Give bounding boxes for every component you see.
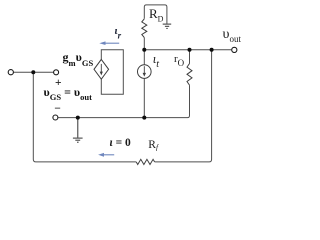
arrowhead inside diamond xyxy=(100,72,103,76)
label minus xyxy=(54,103,61,115)
wire rO top lead xyxy=(189,50,191,64)
junction dots xyxy=(31,48,213,120)
wire it source leads xyxy=(143,50,145,118)
wire bottom right to vout xyxy=(155,50,212,162)
wire loop rectangle of dependent source xyxy=(101,50,123,94)
label rO xyxy=(174,53,184,68)
current arrow i=0 (blue) xyxy=(98,153,114,157)
current arrow ir (blue) xyxy=(99,41,119,45)
resistor rO xyxy=(187,64,192,86)
wire RD lower lead xyxy=(143,38,145,50)
resistor Rf xyxy=(136,159,154,164)
terminal vout xyxy=(232,47,237,52)
node top Rf xyxy=(210,48,214,52)
terminal vGS plus xyxy=(54,70,59,75)
wire bottom rail xyxy=(58,85,189,118)
arrowhead inside it circle xyxy=(143,73,146,77)
label vout top right xyxy=(223,27,241,44)
node rail ground xyxy=(76,116,80,120)
wire input vertical to bottom xyxy=(33,72,136,162)
node top RD/it xyxy=(142,48,146,52)
wire RD top to ground xyxy=(144,5,167,24)
node top rO xyxy=(188,48,192,52)
resistor RD xyxy=(142,19,147,38)
label gm vGS xyxy=(63,50,94,68)
label RD xyxy=(149,6,163,24)
wire top node xyxy=(144,49,231,51)
node input junction xyxy=(31,70,35,74)
label Rf xyxy=(148,139,158,152)
terminal input left xyxy=(8,70,13,75)
ground (bottom rail) xyxy=(73,118,83,143)
wire top-left input xyxy=(14,71,54,73)
dependent source gm vGS (diamond) xyxy=(94,59,109,79)
label it xyxy=(153,52,159,70)
current source it xyxy=(138,65,152,79)
ground (top right of RD) xyxy=(163,24,172,28)
terminal vGS minus xyxy=(53,115,58,120)
label ir xyxy=(115,25,122,41)
label plus xyxy=(55,77,62,89)
label vGS = vout xyxy=(44,85,92,102)
node rail it xyxy=(142,116,146,120)
open terminals xyxy=(8,47,237,120)
label i = 0 xyxy=(110,137,131,149)
